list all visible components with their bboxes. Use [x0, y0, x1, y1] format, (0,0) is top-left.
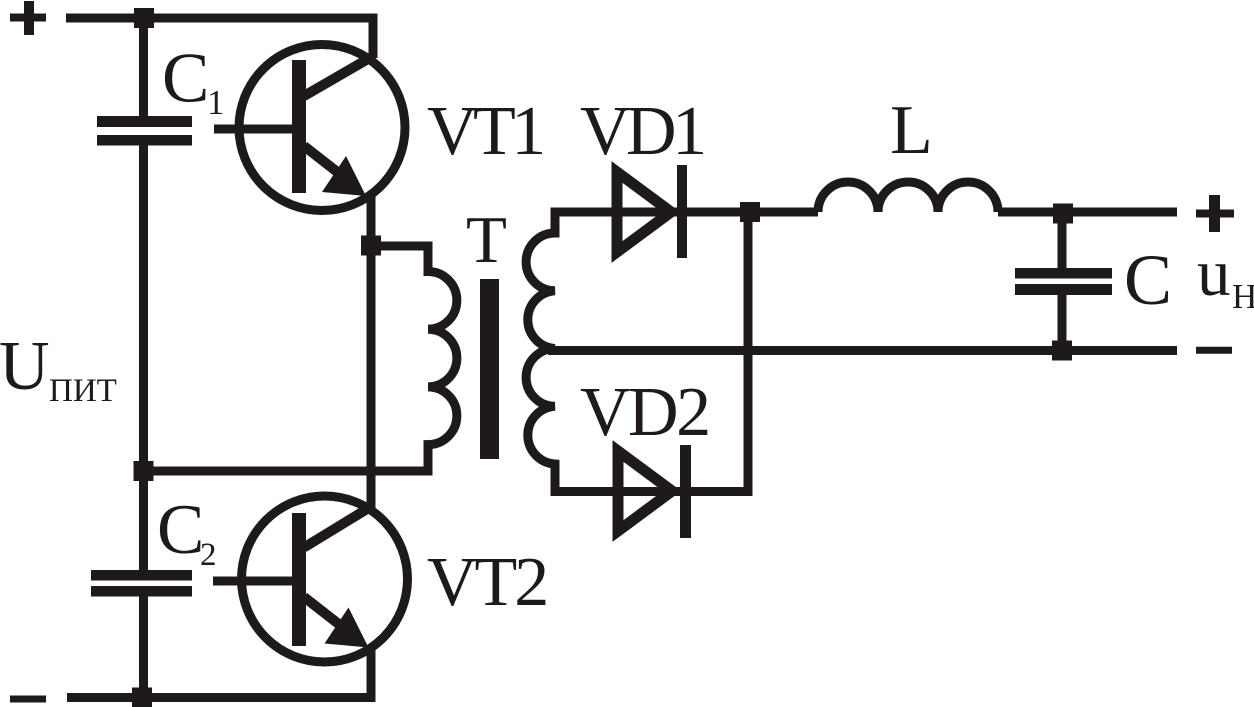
svg-text:L: L — [890, 92, 933, 169]
diode VD1 — [617, 165, 687, 258]
svg-text:u: u — [1197, 236, 1231, 310]
transistor Q VT2 — [213, 245, 408, 697]
junction node C bottom — [1052, 341, 1072, 361]
transformer T core — [480, 279, 499, 459]
capacitor C output — [1015, 214, 1112, 351]
svg-text:VD2: VD2 — [580, 374, 709, 451]
node - (output minus terminal) — [1196, 347, 1232, 354]
svg-text:Н: Н — [1232, 277, 1254, 316]
svg-text:VT1: VT1 — [427, 93, 542, 170]
svg-text:ПИТ: ПИТ — [49, 373, 117, 409]
junction node bottom-left rail — [132, 688, 152, 707]
node + (output plus terminal) — [1196, 195, 1234, 232]
junction node diode cathodes — [740, 202, 760, 222]
svg-text:VD1: VD1 — [580, 93, 703, 170]
transistor Q VT1 — [214, 45, 405, 246]
junction node C top — [1053, 204, 1073, 224]
node + (input plus terminal) — [10, 1, 46, 35]
junction node VT1-emitter/VT2-collector/primary — [361, 236, 381, 256]
wire L to + output — [998, 208, 1177, 217]
wire top rail from + to VT1 collector corner — [66, 18, 373, 58]
inductor L — [818, 182, 998, 212]
svg-text:1: 1 — [207, 83, 225, 122]
svg-text:VT2: VT2 — [427, 544, 546, 621]
diode VD2 — [618, 445, 691, 538]
svg-text:C: C — [162, 40, 209, 118]
svg-text:C: C — [157, 491, 204, 569]
svg-text:U: U — [0, 328, 50, 405]
transformer T primary winding — [143, 246, 457, 471]
junction node mid-left rail (C1/C2 midpoint) — [134, 461, 154, 481]
transformer T secondary winding — [526, 212, 818, 492]
capacitor C2 — [91, 570, 192, 597]
wire center tap to output minus rail — [548, 346, 1177, 355]
wire left rail upper segment — [139, 18, 148, 117]
wire left rail middle segment — [139, 145, 148, 570]
svg-text:2: 2 — [200, 537, 217, 573]
wire left rail lower segment — [139, 596, 148, 697]
wire bottom rail to VT2 emitter — [67, 648, 371, 698]
junction node top-left rail — [134, 8, 154, 28]
capacitor C1 — [97, 116, 192, 146]
svg-text:C: C — [1124, 240, 1172, 320]
svg-text:T: T — [466, 203, 507, 277]
node - (input minus terminal) — [10, 696, 46, 703]
